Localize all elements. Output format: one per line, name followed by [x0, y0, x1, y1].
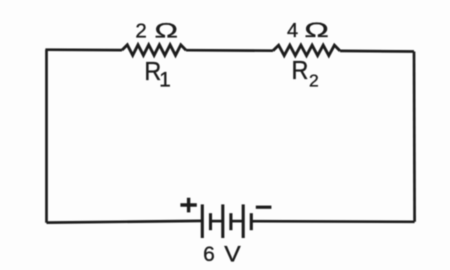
battery B1 plate long 3 — [242, 204, 245, 238]
battery B1 plate short 2 — [229, 213, 232, 230]
svg-text:2: 2 — [309, 71, 319, 91]
wire battery cell link 2 — [231, 220, 243, 223]
battery B1 plate long 2 — [221, 204, 224, 238]
wire right side — [413, 52, 416, 222]
battery B1 plate short 1 — [209, 213, 212, 230]
resistor R2 — [273, 45, 340, 55]
battery B1 plate long 1 — [201, 204, 204, 238]
svg-text:Ω: Ω — [304, 18, 328, 42]
svg-text:4: 4 — [287, 20, 298, 42]
svg-text:6: 6 — [203, 243, 215, 266]
battery B1 plate short 3 — [250, 213, 253, 230]
wire left side — [45, 50, 48, 223]
wire bottom-left to battery — [47, 221, 203, 223]
wire R2 to top-right corner — [340, 50, 414, 53]
svg-text:2: 2 — [135, 19, 146, 42]
wire battery cell link 1 — [211, 220, 223, 223]
svg-text:R: R — [292, 57, 309, 85]
minus polarity symbol — [256, 206, 272, 209]
plus polarity symbol — [180, 198, 196, 213]
svg-text:1: 1 — [159, 69, 171, 92]
svg-text:Ω: Ω — [154, 18, 177, 42]
wire bottom-right to battery — [251, 220, 414, 223]
wire top-left to R1 — [45, 48, 122, 51]
svg-text:V: V — [224, 242, 241, 266]
resistor R1 — [122, 45, 186, 56]
wire R1 to R2 — [186, 49, 273, 52]
